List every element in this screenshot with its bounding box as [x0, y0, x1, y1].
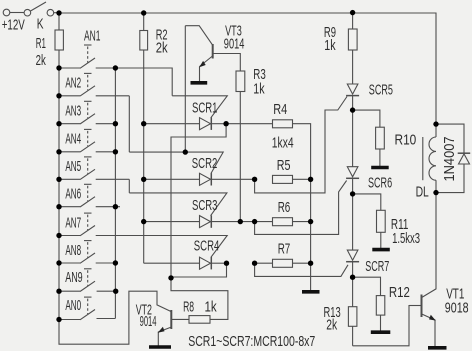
ground under VT2	[149, 345, 171, 349]
wire SCR1 cathode to reset node	[171, 124, 226, 278]
svg-text:AN0: AN0	[65, 297, 81, 314]
ground under R12	[371, 330, 391, 334]
svg-text:1N4007: 1N4007	[441, 137, 458, 182]
wire R6 to common resistor bus	[293, 221, 311, 223]
pushbutton AN2	[59, 73, 129, 96]
wire SCR1 gate line	[172, 96, 227, 118]
svg-text:SCR4: SCR4	[194, 238, 220, 255]
thyristor SCR6	[346, 167, 359, 194]
transistor VT2	[158, 310, 171, 346]
wire R8 to VT2 base	[172, 318, 189, 320]
svg-text:K: K	[37, 15, 44, 32]
wire common resistor bus to ground	[310, 179, 312, 290]
svg-text:AN2: AN2	[65, 75, 81, 92]
wire SCR7 cathode to R13	[352, 277, 354, 307]
svg-text:R5: R5	[277, 157, 291, 174]
svg-text:AN5: AN5	[65, 158, 81, 175]
resistor R6	[273, 218, 293, 226]
wire bus of wrong keys (x=115.4)	[114, 68, 116, 319]
svg-text:AN1: AN1	[84, 28, 101, 45]
wire SCR3 gate line	[129, 193, 227, 216]
wire AN5 to SCR3 gate	[128, 179, 130, 193]
svg-text:1kx4: 1kx4	[272, 135, 294, 152]
switch K	[24, 2, 54, 16]
pushbutton AN5	[59, 157, 129, 180]
svg-text:9014: 9014	[140, 313, 157, 330]
pushbutton AN4	[59, 129, 115, 152]
pushbutton AN1	[59, 45, 115, 68]
wire SCR7 cathode to R12	[353, 277, 381, 295]
resistor R7	[273, 259, 293, 267]
resistor R5	[273, 175, 293, 183]
resistor R11	[377, 210, 386, 248]
ground under VT3	[191, 81, 208, 85]
svg-text:SCR7: SCR7	[365, 258, 389, 275]
wire SCR2 gate line	[129, 152, 223, 173]
wire reset node to R8	[171, 278, 228, 320]
wire R13 to VT1 base	[353, 306, 421, 346]
wire AN0 feed loop to VT2 collector	[59, 291, 172, 344]
svg-text:AN6: AN6	[65, 186, 81, 203]
svg-text:AN3: AN3	[65, 103, 81, 120]
svg-text:R10: R10	[395, 132, 417, 149]
svg-text:R8: R8	[183, 298, 194, 315]
resistor R12	[376, 296, 385, 331]
resistor R10	[376, 127, 385, 166]
terminal +12V	[3, 9, 10, 16]
svg-text:2k: 2k	[156, 40, 168, 57]
wire SCR3 cathode to SCR6 gate	[255, 181, 347, 235]
ground under resistor bus	[302, 290, 320, 294]
wire R5 right	[293, 178, 311, 180]
transistor VT3	[185, 26, 240, 82]
thyristor SCR5	[346, 84, 359, 110]
resistor R2	[140, 13, 148, 263]
wire terminal to switch K	[10, 12, 24, 14]
svg-text:AN8: AN8	[65, 242, 81, 259]
svg-text:SCR2: SCR2	[192, 155, 218, 172]
thyristor SCR7	[346, 250, 359, 277]
wire top rail +12V	[59, 13, 436, 124]
wire SCR6 cathode to R11	[353, 194, 381, 210]
resistor R4	[273, 120, 293, 128]
thyristor SCR4	[144, 257, 227, 269]
wire switch to top rail	[54, 12, 59, 14]
pushbutton AN8	[59, 241, 115, 264]
resistor R3	[236, 71, 245, 222]
wire R4 to common resistor bus	[293, 124, 311, 180]
wire SCR2 cathode to SCR5 gate	[255, 97, 347, 193]
ground under R10	[371, 166, 389, 170]
svg-text:R1: R1	[36, 35, 46, 52]
svg-text:1k: 1k	[253, 80, 265, 97]
wire AN7 row to SCR4 gate	[96, 236, 228, 258]
transistor VT1	[409, 193, 436, 347]
svg-text:R7: R7	[278, 240, 291, 257]
svg-text:SCR1: SCR1	[192, 100, 218, 117]
resistor R1	[55, 13, 63, 320]
arrow VT2 emitter	[158, 327, 165, 333]
thyristor SCR2	[144, 173, 255, 185]
svg-text:SCR1~SCR7:MCR100-8x7: SCR1~SCR7:MCR100-8x7	[188, 333, 315, 350]
svg-text:9018: 9018	[445, 299, 469, 316]
pushbutton AN6	[59, 184, 120, 207]
thyristor SCR3	[144, 215, 255, 227]
svg-text:2k: 2k	[326, 316, 337, 333]
wire SCR1 cathode to R4	[226, 123, 272, 125]
wire SCR4 cathode row to R7	[255, 262, 273, 264]
svg-text:AN9: AN9	[65, 269, 83, 286]
resistor R8	[189, 316, 210, 324]
svg-text:2k: 2k	[36, 52, 47, 69]
svg-text:1.5kx3: 1.5kx3	[392, 230, 420, 247]
pushbutton AN7	[59, 213, 95, 236]
wire VT3 collector bus to SCR2 gate	[184, 26, 186, 152]
resistor R9	[348, 13, 357, 84]
pushbutton AN3	[59, 101, 115, 124]
arrow VT3 emitter	[199, 61, 206, 67]
wire SCR4 cathode to reset node	[171, 263, 227, 277]
pushbutton AN9	[59, 269, 116, 292]
wire SCR4 cathode to SCR7 gate	[255, 263, 348, 276]
pushbutton AN0	[59, 297, 115, 320]
svg-text:SCR3: SCR3	[192, 197, 218, 214]
wire AN1 to SCR1 gate	[115, 68, 172, 96]
wire SCR6 cathode to SCR7 anode	[352, 194, 354, 250]
arrow VT1 emitter	[429, 315, 436, 321]
svg-text:AN7: AN7	[65, 214, 81, 231]
ground under R11	[372, 248, 390, 252]
relay coil DL	[423, 124, 436, 193]
svg-text:1k: 1k	[205, 298, 218, 315]
svg-text:R6: R6	[278, 199, 291, 216]
svg-text:DL: DL	[416, 183, 429, 200]
svg-text:AN4: AN4	[65, 131, 81, 148]
svg-text:R4: R4	[273, 101, 287, 118]
svg-text:SCR5: SCR5	[369, 82, 393, 99]
wire SCR5 cathode to SCR6 anode	[352, 110, 354, 167]
thyristor SCR1	[144, 118, 226, 130]
diode 1N4007	[436, 124, 470, 193]
svg-text:1k: 1k	[324, 37, 336, 54]
wire SCR5 cathode to R10	[353, 110, 380, 127]
svg-text:R12: R12	[389, 284, 410, 301]
svg-text:SCR6: SCR6	[368, 175, 392, 192]
resistor R13	[348, 307, 357, 346]
wire R7 to common resistor bus	[293, 262, 311, 264]
wire SCR3 cathode row to R6	[255, 221, 273, 223]
svg-text:9014: 9014	[224, 36, 245, 53]
wire AN2 to SCR2 gate	[128, 96, 130, 152]
svg-text:+12V: +12V	[2, 16, 25, 33]
ground under VT1	[428, 346, 447, 350]
